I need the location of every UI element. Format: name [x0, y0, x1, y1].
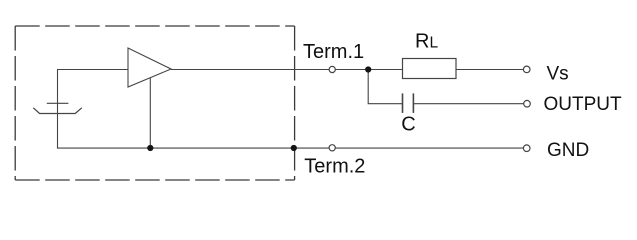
wire: amplifier reference branch (150,77.4)-(150,148)	[149, 77, 151, 148]
wire: amplifier output to Term.1 and resistor (171,69)-(403,69)	[171, 69, 403, 71]
terminal GND (open circle)	[523, 145, 530, 152]
op-amp A1 (amplifier triangle)	[128, 48, 171, 87]
terminal Term.1 (open circle)	[329, 66, 335, 72]
dashed enclosure box (sensor housing)	[15, 26, 294, 180]
svg-text:GND: GND	[547, 140, 589, 161]
wire: capacitor branch down from junction (368,69)-(368,104)-(402.5,104)	[368, 70, 402, 104]
junction node on ground rail inside box	[147, 145, 153, 151]
terminal Term.2 (open circle)	[329, 145, 335, 151]
svg-text:RL: RL	[415, 31, 438, 53]
svg-text:Term.2: Term.2	[304, 156, 365, 178]
svg-text:OUTPUT: OUTPUT	[544, 94, 623, 115]
junction node at Term.1 branch	[365, 66, 371, 72]
wire: capacitor to OUTPUT terminal (413,104)-(524,104)	[413, 103, 523, 105]
wire: amplifier input from sensor (57,69)-(128,69)	[57, 69, 128, 71]
capacitor C (plates)	[403, 93, 414, 113]
terminal Vs (open circle)	[523, 66, 530, 73]
resistor RL (body)	[403, 59, 457, 79]
svg-text:C: C	[401, 113, 415, 135]
terminal OUTPUT (open circle)	[524, 100, 531, 107]
svg-text:Term.1: Term.1	[303, 41, 364, 63]
wire: resistor to Vs terminal (456,69)-(523,69)	[456, 69, 523, 71]
wire: bottom ground rail (57,148)-(523,148)	[57, 147, 523, 149]
svg-text:Vs: Vs	[547, 64, 569, 85]
wire: sensor element vertical lead (57,69)-(57,148)	[57, 69, 59, 149]
sensor element X1 (capacitive transducer)	[33, 103, 82, 113]
junction node on ground rail at box edge	[291, 145, 297, 151]
